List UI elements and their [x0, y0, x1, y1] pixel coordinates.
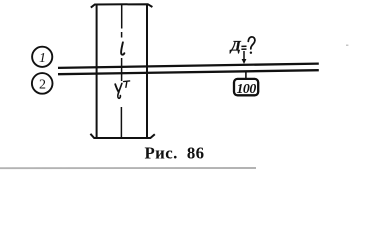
plate bottom cap with end hooks [90, 134, 154, 138]
svg-text:Д: Д [229, 39, 242, 55]
central dashed axis [120, 5, 122, 138]
label D = ? [229, 37, 255, 55]
ray label circle 1 [32, 47, 52, 67]
label l (plate thickness) [121, 42, 124, 54]
plate top cap with end hooks [91, 4, 153, 7]
lower ray (wire) [58, 70, 319, 74]
upper ray (wire) [58, 64, 319, 68]
svg-text:100: 100 [236, 81, 256, 96]
scan artifact: speck [346, 45, 348, 46]
svg-text:1: 1 [39, 51, 46, 66]
svg-text:Рис. 86: Рис. 86 [145, 144, 205, 163]
scan artifact: faint bottom line [0, 167, 256, 169]
label gamma with superscript T [115, 81, 129, 98]
ray label circle 2 [32, 73, 53, 94]
pointer arrow to upper ray [242, 51, 247, 64]
connector tick to value box [245, 72, 247, 80]
value box 100 [234, 79, 258, 96]
plate right edge [146, 5, 148, 138]
plate left edge [96, 5, 98, 138]
svg-text:2: 2 [39, 78, 46, 93]
